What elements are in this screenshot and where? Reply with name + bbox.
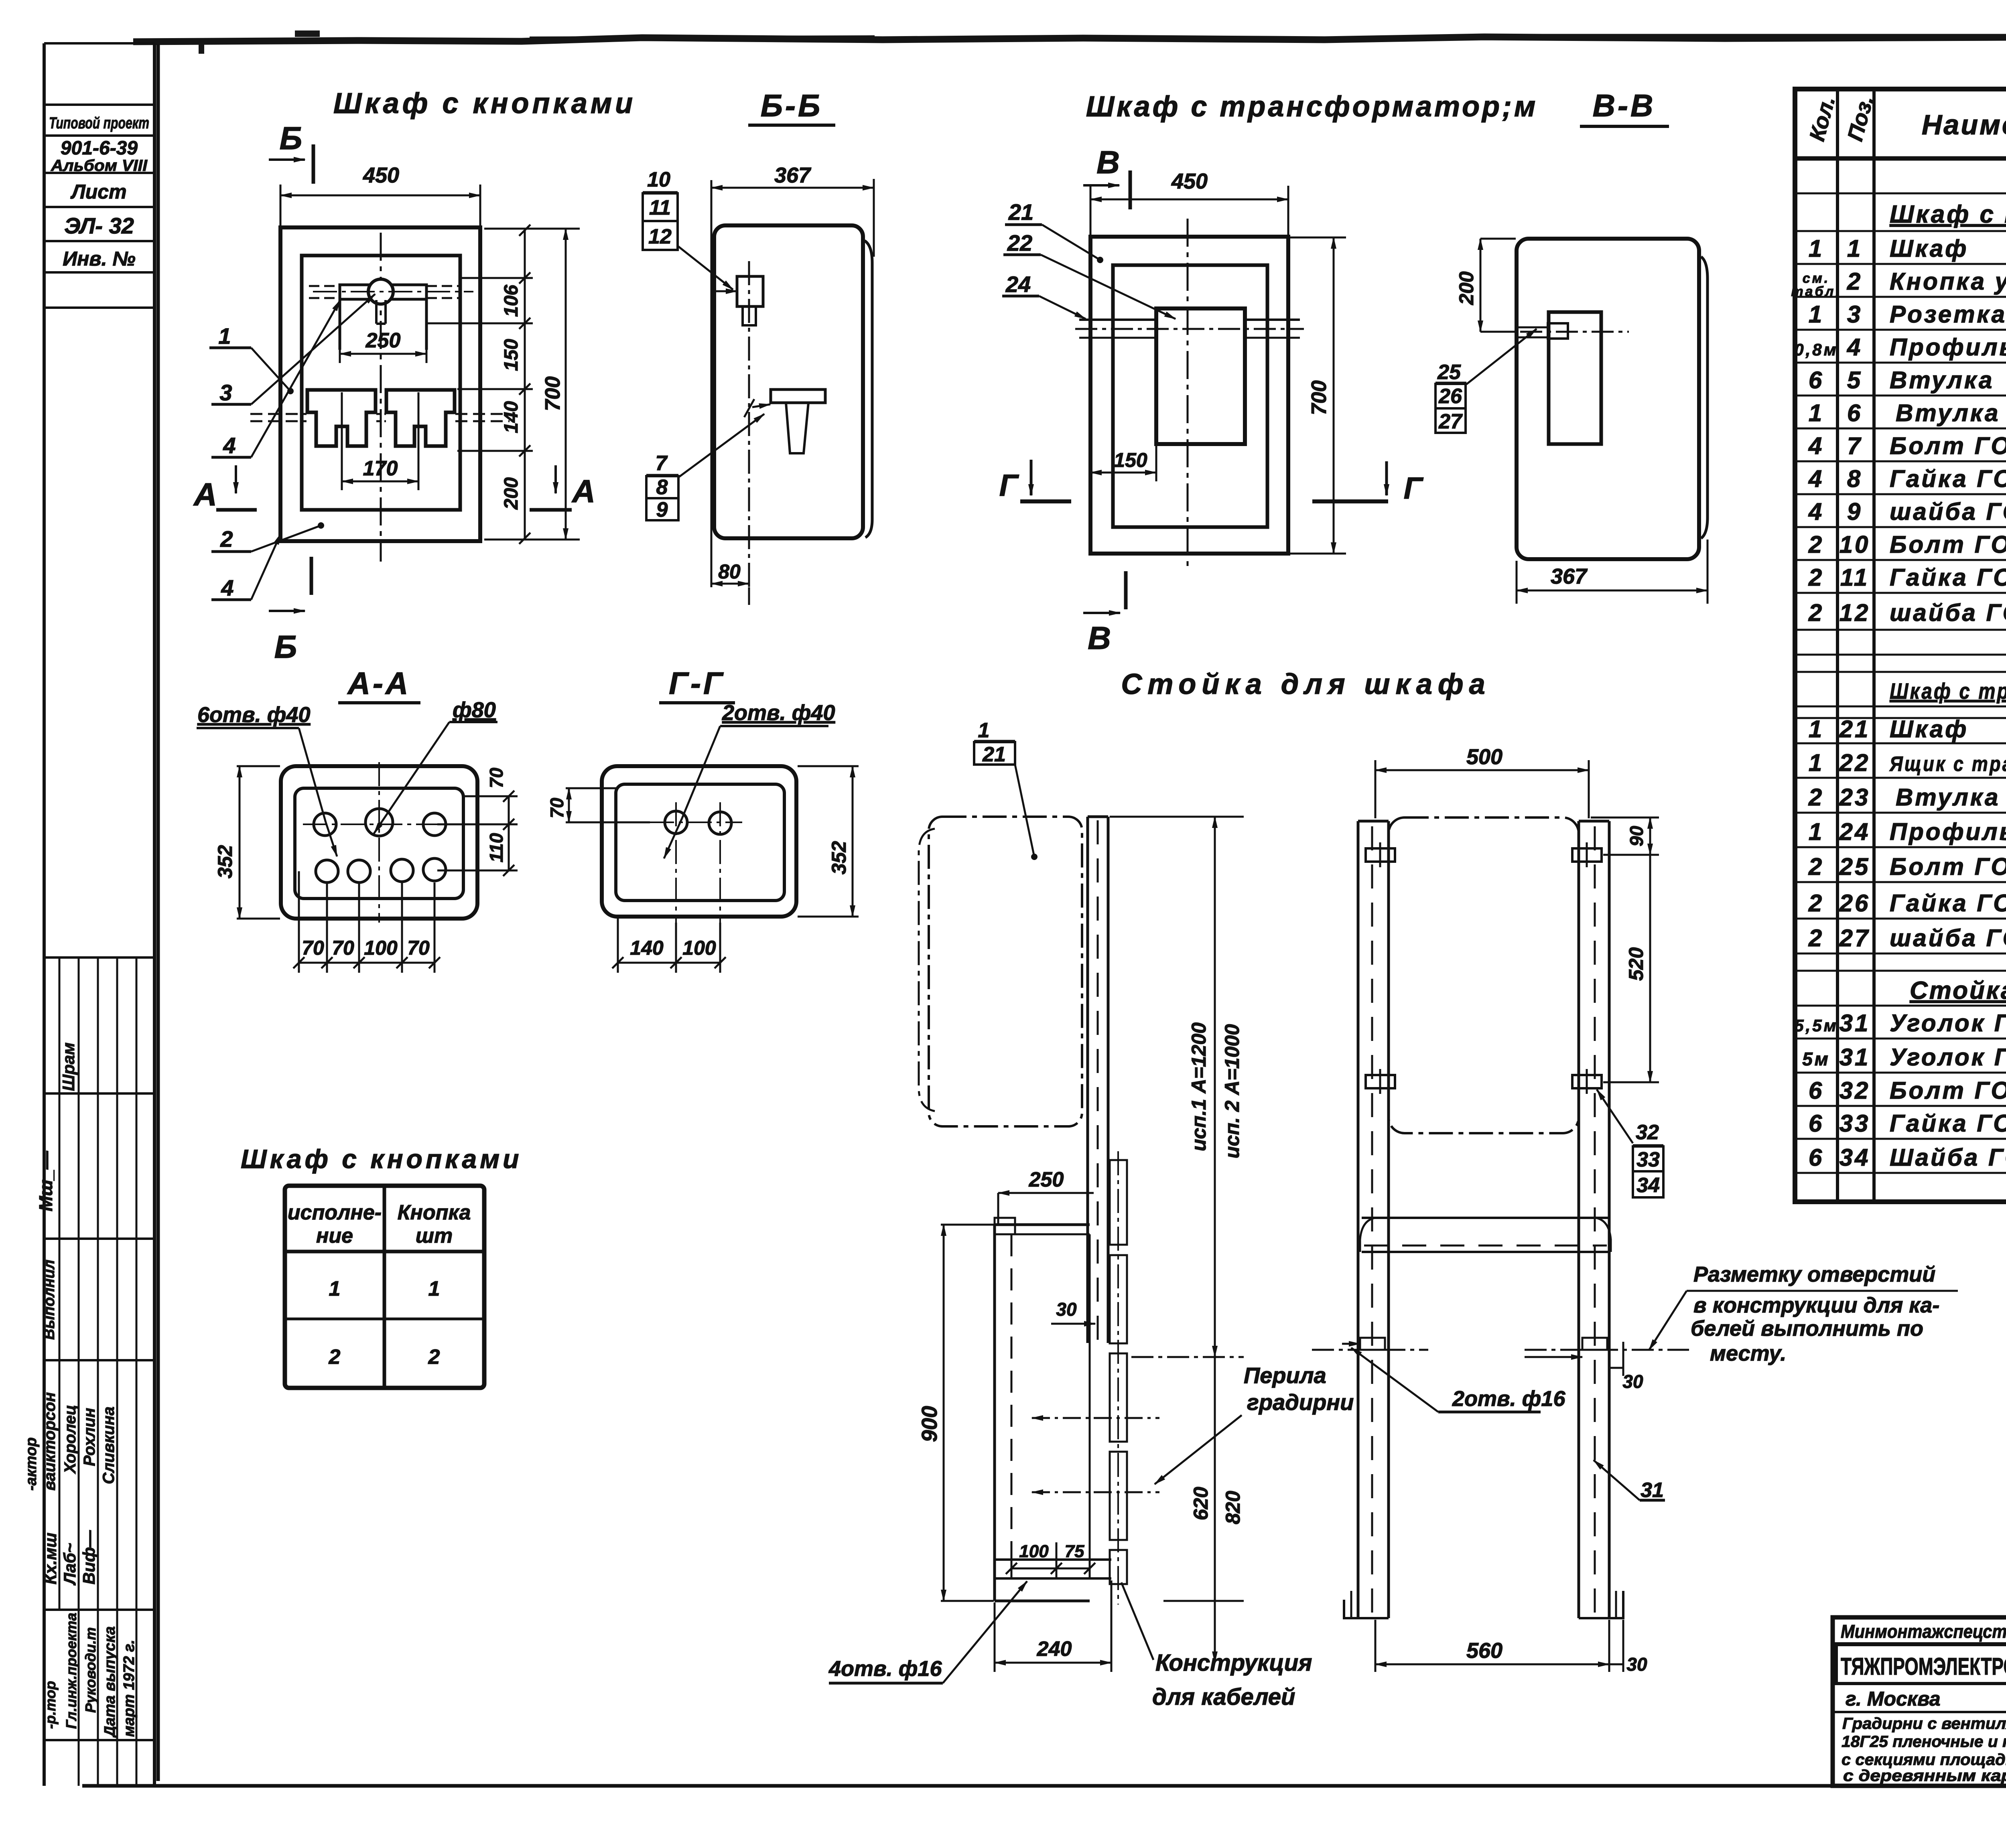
svg-text:2отв. ф16: 2отв. ф16 [1452,1387,1565,1411]
svg-text:Инв. №: Инв. № [63,247,135,270]
svg-text:2: 2 [1808,784,1824,811]
svg-text:-р.тор: -р.тор [42,1681,59,1729]
svg-text:1: 1 [428,1277,440,1300]
svg-text:700: 700 [1308,380,1331,415]
svg-text:Градирни с вентиляторами: Градирни с вентиляторами [1842,1715,2006,1732]
svg-text:2: 2 [1808,531,1824,558]
svg-text:Гайка ГОСТ 5915-70: Гайка ГОСТ 5915-70 [1890,564,2006,591]
svg-text:белей выполнить по: белей выполнить по [1691,1317,1923,1341]
svg-text:520: 520 [1625,947,1647,981]
svg-text:4отв. ф16: 4отв. ф16 [828,1657,942,1681]
svg-text:0,8м: 0,8м [1794,340,1838,359]
svg-text:Альбом VIII: Альбом VIII [51,157,148,174]
svg-text:140: 140 [630,937,664,959]
svg-text:700: 700 [541,376,564,411]
svg-text:24: 24 [1839,818,1870,845]
svg-text:Шрам: Шрам [59,1043,78,1091]
svg-text:4: 4 [1808,465,1824,492]
svg-text:март 1972 г.: март 1972 г. [121,1640,138,1737]
svg-text:7: 7 [656,452,668,475]
svg-text:Г: Г [999,469,1019,503]
svg-text:Шкаф с трансформатор;м: Шкаф с трансформатор;м [1086,91,1538,123]
svg-text:23: 23 [1839,784,1870,811]
svg-text:В: В [1096,144,1120,180]
svg-text:1: 1 [218,323,231,349]
svg-text:Профиль: Профиль [1890,818,2006,845]
svg-text:А: А [571,473,595,509]
svg-text:21: 21 [1839,716,1870,742]
svg-text:Болт ГОСТ 7798-62: Болт ГОСТ 7798-62 [1890,853,2006,880]
svg-text:70: 70 [486,767,507,788]
svg-text:В-В: В-В [1593,88,1656,123]
svg-text:200: 200 [1455,271,1478,305]
svg-text:А: А [193,477,217,512]
svg-text:Перила: Перила [1244,1363,1326,1388]
svg-text:Втулка: Втулка [1896,784,2000,811]
svg-text:Рохлин: Рохлин [81,1408,98,1466]
svg-text:Г-Г: Г-Г [669,665,725,701]
svg-text:2: 2 [1808,599,1824,626]
svg-text:18Г25 пленочные и капельные: 18Г25 пленочные и капельные [1842,1733,2006,1751]
svg-text:2: 2 [1847,268,1862,295]
svg-text:Б-Б: Б-Б [761,88,822,123]
svg-text:6: 6 [1809,1144,1824,1171]
svg-text:2: 2 [1808,890,1824,917]
svg-text:Шкаф с кнопками: Шкаф с кнопками [333,87,636,120]
svg-text:450: 450 [363,163,399,187]
svg-text:Шкаф с трансформатором: Шкаф с трансформатором [1890,678,2006,704]
svg-text:Лист: Лист [70,181,126,203]
svg-text:1: 1 [1809,301,1824,328]
svg-text:4: 4 [1847,334,1862,361]
svg-text:Уголок ГОСТ 8509-57: Уголок ГОСТ 8509-57 [1890,1010,2006,1037]
svg-text:22: 22 [1839,749,1870,776]
svg-text:21: 21 [1008,199,1033,225]
svg-text:6: 6 [1809,367,1824,394]
svg-text:шт: шт [416,1224,453,1248]
svg-text:12: 12 [648,225,672,248]
svg-text:5,5м: 5,5м [1794,1016,1838,1035]
svg-text:вайкторсон: вайкторсон [41,1392,59,1491]
svg-text:150: 150 [501,339,522,371]
svg-text:1: 1 [1809,818,1824,845]
svg-text:900: 900 [918,1406,942,1442]
svg-text:табл.: табл. [1791,284,1841,299]
svg-text:Втулка: Втулка [1896,400,2000,426]
svg-text:шайба ГОСТ 11371-68: шайба ГОСТ 11371-68 [1890,599,2006,626]
svg-text:Руководи.т: Руководи.т [82,1627,99,1713]
svg-text:Втулка: Втулка [1890,367,1994,394]
svg-text:4: 4 [223,433,236,458]
svg-text:4: 4 [1808,498,1824,525]
svg-text:110: 110 [486,833,507,862]
svg-text:Б: Б [274,629,297,665]
svg-text:367: 367 [774,163,812,187]
svg-text:2: 2 [220,526,233,552]
svg-text:2: 2 [1808,564,1824,591]
svg-text:12: 12 [1840,599,1870,626]
svg-text:100: 100 [682,937,716,959]
svg-text:Ящик с трансформатором: Ящик с трансформатором [1889,753,2006,776]
svg-text:820: 820 [1222,1491,1244,1524]
svg-text:-актор: -актор [23,1437,40,1491]
svg-text:352: 352 [828,841,850,874]
svg-text:7: 7 [1847,432,1862,459]
svg-text:Кол.: Кол. [1805,94,1840,144]
svg-text:месту.: месту. [1710,1341,1786,1365]
svg-text:31: 31 [1840,1044,1870,1071]
svg-text:Виф—: Виф— [79,1530,98,1584]
svg-text:450: 450 [1171,169,1208,193]
svg-text:Гайка ГОСТ 5915-70: Гайка ГОСТ 5915-70 [1890,890,2006,917]
svg-text:10: 10 [1840,531,1870,558]
svg-text:Гайка ГОСТ 5915-70: Гайка ГОСТ 5915-70 [1890,465,2006,492]
svg-text:24: 24 [1005,272,1031,297]
svg-text:Минмонтажспецстрой СССР: Минмонтажспецстрой СССР [1841,1621,2006,1642]
svg-text:2отв. ф40: 2отв. ф40 [722,701,835,725]
svg-text:Болт ГОСТ 7798-62: Болт ГОСТ 7798-62 [1890,1077,2006,1104]
svg-text:352: 352 [214,845,236,878]
svg-text:620: 620 [1190,1487,1212,1520]
svg-text:9: 9 [1847,498,1862,525]
svg-text:33: 33 [1636,1148,1660,1171]
svg-text:в конструкции для ка-: в конструкции для ка- [1693,1293,1939,1317]
svg-text:8: 8 [1847,465,1862,492]
svg-text:3: 3 [1847,301,1862,328]
svg-text:2: 2 [1808,925,1824,951]
svg-text:с деревянным каркасом: с деревянным каркасом [1843,1767,2006,1785]
svg-text:исп. 2 А=1000: исп. 2 А=1000 [1221,1024,1243,1158]
svg-text:4: 4 [221,575,233,600]
svg-text:ТЯЖПРОМЭЛЕКТРОПРОЕКТ: ТЯЖПРОМЭЛЕКТРОПРОЕКТ [1841,1653,2006,1680]
svg-text:140: 140 [501,401,522,433]
svg-text:Уголок ГОСТ 8509-57: Уголок ГОСТ 8509-57 [1890,1044,2006,1071]
svg-text:75: 75 [1065,1542,1084,1561]
svg-text:34: 34 [1840,1144,1870,1171]
svg-text:34: 34 [1636,1174,1660,1197]
svg-text:градирни: градирни [1247,1390,1354,1415]
svg-text:150: 150 [1114,449,1147,471]
svg-text:Шкаф с кнопками: Шкаф с кнопками [1890,201,2006,228]
svg-text:240: 240 [1037,1637,1072,1661]
svg-text:Гл.инж.проекта: Гл.инж.проекта [63,1613,79,1729]
svg-text:В: В [1088,620,1111,656]
svg-text:Кнопка: Кнопка [398,1201,471,1224]
svg-text:250: 250 [365,329,401,352]
svg-text:25: 25 [1839,853,1870,880]
svg-text:9: 9 [656,498,668,521]
svg-text:шайба ГОСТ 11371-68: шайба ГОСТ 11371-68 [1890,925,2006,951]
svg-text:Мш_—: Мш_— [35,1150,56,1211]
svg-text:31: 31 [1840,1010,1870,1037]
svg-text:г. Москва: г. Москва [1846,1688,1941,1710]
svg-text:6: 6 [1809,1110,1824,1137]
svg-text:Болт ГОСТ 7805-62: Болт ГОСТ 7805-62 [1890,531,2006,558]
svg-text:6отв. ф40: 6отв. ф40 [197,703,311,727]
svg-text:Стойка для шкафа: Стойка для шкафа [1910,977,2006,1004]
svg-text:1: 1 [1847,235,1862,262]
svg-text:11: 11 [649,196,671,219]
svg-text:22: 22 [1007,230,1032,256]
svg-text:Г: Г [1404,471,1424,505]
svg-text:1: 1 [1809,235,1824,262]
svg-text:1: 1 [978,719,990,742]
svg-text:8: 8 [656,476,668,499]
svg-text:Шкаф с кнопками: Шкаф с кнопками [241,1144,522,1174]
svg-text:100: 100 [1019,1542,1049,1561]
svg-text:Шкаф: Шкаф [1890,235,1968,262]
svg-text:Типовой проект: Типовой проект [49,114,149,132]
svg-text:4: 4 [1808,432,1824,459]
svg-text:250: 250 [1029,1168,1064,1191]
svg-text:27: 27 [1438,410,1463,433]
svg-text:Шайба ГОСТ 11371-68: Шайба ГОСТ 11371-68 [1890,1144,2006,1171]
svg-text:Шкаф: Шкаф [1890,716,1968,742]
svg-text:исполне-: исполне- [288,1201,382,1224]
svg-text:Конструкция: Конструкция [1155,1650,1312,1676]
svg-text:560: 560 [1466,1639,1502,1663]
svg-text:901-6-39: 901-6-39 [61,138,138,159]
svg-text:шайба ГОСТ 11371-68: шайба ГОСТ 11371-68 [1890,498,2006,525]
svg-text:Розетка штепсельная: Розетка штепсельная [1890,301,2006,328]
svg-text:А-А: А-А [347,665,411,701]
svg-text:80: 80 [718,560,741,583]
svg-text:106: 106 [501,285,522,317]
svg-text:1: 1 [1809,749,1824,776]
svg-text:500: 500 [1466,745,1502,769]
svg-text:10: 10 [647,168,670,191]
svg-text:Хоролец: Хоролец [61,1405,79,1474]
svg-text:30: 30 [1626,1654,1647,1675]
svg-text:Сливкина: Сливкина [100,1407,118,1484]
svg-text:Наименование: Наименование [1922,109,2006,140]
svg-text:25: 25 [1437,361,1461,384]
svg-text:6: 6 [1847,400,1862,426]
svg-text:Лаб~: Лаб~ [60,1543,79,1586]
svg-text:5м: 5м [1802,1049,1830,1069]
svg-text:ф80: ф80 [453,698,496,722]
svg-text:6: 6 [1809,1077,1824,1104]
svg-text:70: 70 [407,937,430,959]
svg-text:2: 2 [1808,853,1824,880]
svg-text:1: 1 [1809,716,1824,742]
svg-text:11: 11 [1840,564,1869,591]
svg-text:27: 27 [1839,925,1870,951]
svg-text:5: 5 [1847,367,1862,394]
svg-text:ние: ние [316,1224,353,1248]
svg-text:100: 100 [364,937,398,959]
svg-text:70: 70 [332,937,354,959]
svg-text:с секциями площадью 16кв.м: с секциями площадью 16кв.м [1842,1751,2006,1769]
svg-text:3: 3 [219,380,232,405]
svg-text:Разметку отверстий: Разметку отверстий [1693,1262,1935,1286]
svg-text:32: 32 [1636,1121,1659,1144]
svg-text:Профиль: Профиль [1890,334,2006,361]
svg-text:1: 1 [329,1277,341,1300]
svg-text:Стойка для шкафа: Стойка для шкафа [1121,668,1490,700]
svg-text:31: 31 [1641,1479,1664,1502]
svg-text:Болт ГОСТ 7798-62: Болт ГОСТ 7798-62 [1890,432,2006,459]
svg-text:30: 30 [1622,1371,1643,1392]
svg-text:200: 200 [501,477,522,510]
svg-text:Гайка ГОСТ 5915-70: Гайка ГОСТ 5915-70 [1890,1110,2006,1137]
svg-text:1: 1 [1809,400,1824,426]
svg-text:ЭЛ- 32: ЭЛ- 32 [64,213,134,238]
svg-text:2: 2 [428,1345,440,1369]
svg-text:367: 367 [1551,564,1588,588]
svg-text:Выполнил: Выполнил [41,1260,58,1340]
svg-text:Дата выпуска: Дата выпуска [102,1626,118,1738]
svg-text:исп.1 А=1200: исп.1 А=1200 [1188,1022,1210,1151]
svg-text:26: 26 [1438,385,1462,408]
svg-text:21: 21 [982,743,1006,766]
svg-text:Кх.мш: Кх.мш [41,1533,60,1584]
svg-text:90: 90 [1626,826,1647,846]
svg-text:для кабелей: для кабелей [1152,1684,1295,1710]
svg-text:33: 33 [1840,1110,1870,1137]
svg-text:30: 30 [1056,1299,1077,1320]
svg-text:2: 2 [329,1345,341,1369]
svg-text:70: 70 [546,797,567,818]
svg-text:170: 170 [363,457,398,480]
svg-text:Б: Б [280,120,303,156]
svg-text:70: 70 [302,937,324,959]
svg-text:32: 32 [1840,1077,1870,1104]
svg-text:26: 26 [1839,890,1870,917]
svg-text:Кнопка управления: Кнопка управления [1890,268,2006,295]
